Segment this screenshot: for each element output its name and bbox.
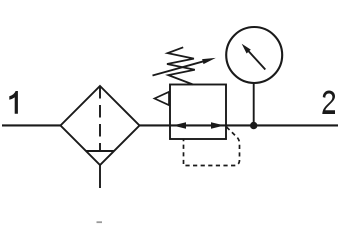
pressure gauge G1: needle arrowhead [242,44,251,54]
filter F1: drain line [99,165,101,188]
filter F1: condensate chord [86,150,114,152]
regulator R1: vent triangle [155,92,170,105]
node 2 label [322,91,335,115]
filter F1: dashed element line [99,86,101,151]
pressure gauge G1: dial circle [226,27,282,83]
node 1 label [9,91,18,114]
regulator R1: left flow arrowhead [173,122,187,128]
regulator R1: body box [170,85,226,140]
regulator R1: adjustability arrowhead [202,58,216,64]
regulator R1: pilot dashed line loop [184,127,240,166]
wire: inlet line from port 1 to filter [2,124,61,126]
regulator R1: flow path line [170,124,226,126]
regulator R1: right flow arrowhead [211,122,225,128]
stray faint mark below drain [97,221,103,223]
wire: filter to regulator [140,124,171,126]
junction dot on output line [250,122,257,129]
pressure gauge G1: needle shaft [248,51,265,70]
regulator R1: adjustability arrow shaft [153,61,205,75]
wire: gauge stem [253,83,255,126]
filter F1: diamond body [61,86,140,165]
wire: regulator to port 2 [226,124,338,126]
regulator R1: adjustment spring [167,47,195,84]
